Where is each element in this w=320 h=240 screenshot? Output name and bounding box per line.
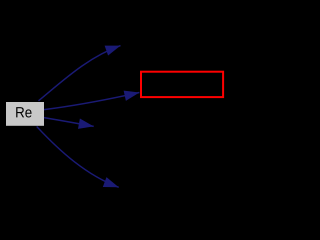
edge Re->n2 (to red node) [44, 93, 139, 110]
node Re label [16, 107, 31, 117]
edge Re->n4 (bottom arc) [37, 127, 119, 188]
edge Re->n3 (short middle) [44, 118, 94, 127]
node Re [6, 102, 44, 126]
edge Re->n1 (top arc) [39, 46, 121, 101]
node n2 (highlighted, red border) [141, 72, 223, 97]
